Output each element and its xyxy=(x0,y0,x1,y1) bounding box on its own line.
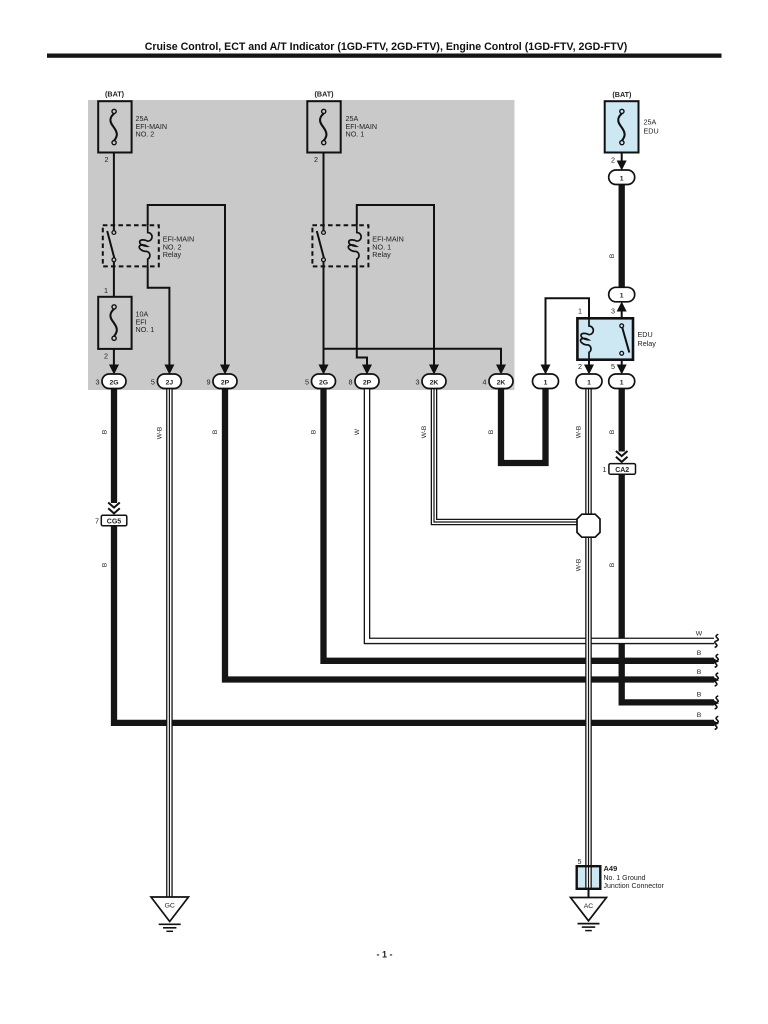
svg-text:EDU: EDU xyxy=(644,127,659,136)
connector oval 1 above EDU relay pin3 xyxy=(609,287,635,302)
svg-text:(BAT): (BAT) xyxy=(105,90,125,99)
connector oval 1 (EDU pin5) xyxy=(609,374,635,389)
connector oval 2G pin5 xyxy=(305,374,336,389)
connector oval 2K pin3 xyxy=(416,374,447,389)
hollow wire W-B from octagon junction to A49 xyxy=(585,530,592,888)
thick wire B from 2P pin9 to row3 xyxy=(225,388,714,680)
octagon junction xyxy=(577,514,600,537)
connector oval 2K pin4 xyxy=(483,374,514,389)
svg-text:EDU: EDU xyxy=(638,330,653,339)
svg-text:1: 1 xyxy=(620,379,624,386)
arrow into 2K pin4 xyxy=(496,365,506,375)
wire EDU relay pin3 up to connector 1 xyxy=(621,305,623,326)
wire A49 to ground AC xyxy=(588,889,590,898)
svg-text:Relay: Relay xyxy=(638,339,657,348)
svg-text:25A: 25A xyxy=(644,118,657,127)
arrow into 2J pin5 xyxy=(164,365,174,375)
svg-text:2: 2 xyxy=(105,155,109,164)
svg-text:2G: 2G xyxy=(109,379,118,386)
thick wire B from connector 1 pin5 through CA2 to row4 xyxy=(622,388,714,702)
svg-text:CA2: CA2 xyxy=(615,467,629,474)
title rule xyxy=(47,54,722,58)
svg-text:B: B xyxy=(609,254,616,258)
svg-text:5: 5 xyxy=(578,857,582,866)
brace end row1 W xyxy=(715,634,719,647)
connector oval 1 below EDU fuse xyxy=(609,170,635,185)
svg-text:2K: 2K xyxy=(497,379,506,386)
fuse F1 25A EFI-MAIN NO.2 xyxy=(98,90,167,165)
brace end row3 B xyxy=(715,673,719,686)
connector oval 1 (EDU pin1) xyxy=(533,374,559,389)
arrow into 2P pin9 xyxy=(220,365,230,375)
wire relay R2 coil bottom jog to 2P pin8 xyxy=(357,266,367,370)
svg-text:W: W xyxy=(354,428,361,435)
connector CG5 xyxy=(95,515,127,526)
svg-text:2P: 2P xyxy=(363,379,372,386)
svg-text:Relay: Relay xyxy=(163,250,182,259)
svg-text:8: 8 xyxy=(349,378,353,387)
svg-text:No. 1 Ground: No. 1 Ground xyxy=(604,875,646,882)
svg-text:CG5: CG5 xyxy=(107,518,122,525)
svg-text:1: 1 xyxy=(587,379,591,386)
svg-text:(BAT): (BAT) xyxy=(612,90,632,99)
arrow into 2G pin5 xyxy=(319,365,329,375)
arrow into connector1 below EDU fuse xyxy=(617,161,627,171)
svg-text:B: B xyxy=(697,650,702,657)
svg-text:B: B xyxy=(697,712,702,719)
wire from fuse F1 to relay R1 switch xyxy=(113,153,115,233)
svg-text:B: B xyxy=(488,430,495,434)
brace end row5 B xyxy=(715,716,719,729)
svg-text:Junction Connector: Junction Connector xyxy=(604,883,665,890)
wire EDU relay pin2 down to connector 1 xyxy=(588,360,590,370)
svg-text:B: B xyxy=(101,563,108,567)
svg-text:2K: 2K xyxy=(430,379,439,386)
connector oval 1 (EDU pin2) xyxy=(576,374,602,389)
wire EDU relay pin5 down to connector 1 xyxy=(621,354,623,371)
svg-text:W-B: W-B xyxy=(156,427,163,440)
connector oval 2G pin3 xyxy=(96,374,127,389)
thick wire B from 2G pin5 to row2 xyxy=(324,388,715,661)
svg-text:2: 2 xyxy=(104,352,108,361)
hollow wire W-B from 2J pin5 down to ground GC xyxy=(166,388,173,897)
brace end row2 B xyxy=(715,654,719,667)
svg-text:NO. 2: NO. 2 xyxy=(136,130,155,139)
connector A49 junction box xyxy=(577,857,665,890)
svg-text:5: 5 xyxy=(611,362,615,371)
wire relay R2 coil top over to 2K pin3 xyxy=(357,205,434,370)
connector oval 2J pin5 xyxy=(151,374,182,389)
arrow into 2P pin8 xyxy=(362,365,372,375)
svg-text:NO. 1: NO. 1 xyxy=(136,325,155,334)
wire fuse 10A to connector 2G pin3 xyxy=(113,349,115,370)
svg-text:1: 1 xyxy=(620,293,624,300)
connector oval 2P pin9 xyxy=(207,374,238,389)
svg-text:Cruise Control, ECT and A/T In: Cruise Control, ECT and A/T Indicator (1… xyxy=(145,41,628,53)
background shading of engine-room harness area xyxy=(88,100,515,390)
row end taper B row2 xyxy=(713,658,720,664)
svg-text:W-B: W-B xyxy=(576,426,583,439)
svg-text:2J: 2J xyxy=(166,379,174,386)
arrow into 2K pin3 xyxy=(429,365,439,375)
svg-text:W-B: W-B xyxy=(576,559,583,572)
svg-text:B: B xyxy=(609,563,616,567)
thick wire B U-shape from 2K pin4 to connector 1 xyxy=(501,384,546,463)
chevron pair above CA2 xyxy=(616,451,628,464)
svg-text:B: B xyxy=(101,430,108,434)
svg-text:B: B xyxy=(697,669,702,676)
svg-text:5: 5 xyxy=(151,378,155,387)
wire relay R2 switch down to junction xyxy=(323,260,325,370)
svg-text:W: W xyxy=(696,630,703,637)
row end taper B row5 xyxy=(713,720,720,726)
svg-text:7: 7 xyxy=(95,517,99,526)
svg-text:5: 5 xyxy=(305,378,309,387)
wire fuse EDU to connector 1 xyxy=(621,153,623,167)
svg-text:2: 2 xyxy=(578,362,582,371)
wire relay R1 switch to fuse 10A EFI NO.1 xyxy=(113,260,115,297)
relay R1 EFI-MAIN NO.2 xyxy=(103,225,194,266)
ground GC xyxy=(151,897,189,931)
chevron pair above CG5 xyxy=(108,503,120,516)
row end taper B row4 xyxy=(713,699,720,705)
fuse F2 25A EFI-MAIN NO.1 xyxy=(307,90,377,165)
svg-text:GC: GC xyxy=(165,903,175,910)
relay R2 EFI-MAIN NO.1 xyxy=(312,225,403,266)
svg-text:B: B xyxy=(212,430,219,434)
svg-text:2P: 2P xyxy=(221,379,230,386)
svg-text:W-B: W-B xyxy=(421,426,428,439)
svg-text:A49: A49 xyxy=(604,864,618,873)
connector oval 2P pin8 xyxy=(349,374,380,389)
svg-text:3: 3 xyxy=(96,378,100,387)
ground AC xyxy=(571,898,607,931)
svg-text:1: 1 xyxy=(544,379,548,386)
arrow into connector1 from EDU relay pin2 xyxy=(584,365,594,375)
arrow up into connector1 from EDU relay pin3 xyxy=(617,302,627,312)
svg-text:B: B xyxy=(697,692,702,699)
svg-text:1: 1 xyxy=(620,175,624,182)
row end taper B row3 xyxy=(713,676,720,682)
svg-text:(BAT): (BAT) xyxy=(314,90,334,99)
svg-text:2: 2 xyxy=(314,155,318,164)
svg-text:4: 4 xyxy=(483,378,487,387)
svg-text:3: 3 xyxy=(611,307,615,316)
svg-text:1: 1 xyxy=(603,465,607,474)
svg-text:2G: 2G xyxy=(319,379,328,386)
svg-text:B: B xyxy=(609,430,616,434)
svg-text:NO. 1: NO. 1 xyxy=(346,130,365,139)
hollow wire W from 2P pin8 to row1 xyxy=(367,388,714,641)
svg-text:B: B xyxy=(311,430,318,434)
brace end row4 B xyxy=(715,696,719,709)
fuse F4 10A EFI NO.1 xyxy=(98,286,154,361)
svg-text:2: 2 xyxy=(611,156,615,165)
svg-text:AC: AC xyxy=(584,903,594,910)
wire EDU relay pin1 over to connector 1 xyxy=(546,298,590,370)
hollow wire W-B from connector 1 pin2 to octagon junction xyxy=(585,388,592,520)
svg-text:9: 9 xyxy=(207,378,211,387)
connector CA2 xyxy=(603,464,636,475)
wire relay R1 coil bottom jog to 2J pin5 xyxy=(148,266,170,370)
relay EDU xyxy=(577,307,656,372)
wire relay R1 coil top to node, over to 2P pin9 xyxy=(148,205,225,370)
arrow into connector1 from EDU relay pin5 xyxy=(617,365,627,375)
wire fuse F2 to relay R2 switch xyxy=(323,153,325,233)
svg-text:1: 1 xyxy=(104,286,108,295)
svg-text:Relay: Relay xyxy=(372,250,391,259)
svg-text:- 1 -: - 1 - xyxy=(376,950,392,960)
wire junction to 2K pin4 xyxy=(324,349,502,370)
thick wire B from EDU fuse connector down to second connector 1 xyxy=(619,182,625,292)
hollow wire W-B from 2K pin3 to octagon junction xyxy=(434,388,589,522)
fuse F3 25A EDU xyxy=(605,90,659,165)
arrow into 2G pin3 xyxy=(109,365,119,375)
arrow into connector1 from EDU relay pin1 xyxy=(541,365,551,375)
svg-text:1: 1 xyxy=(578,307,582,316)
thick wire B from 2G pin3 down through CG5 to row5 xyxy=(114,388,714,723)
svg-text:3: 3 xyxy=(416,378,420,387)
